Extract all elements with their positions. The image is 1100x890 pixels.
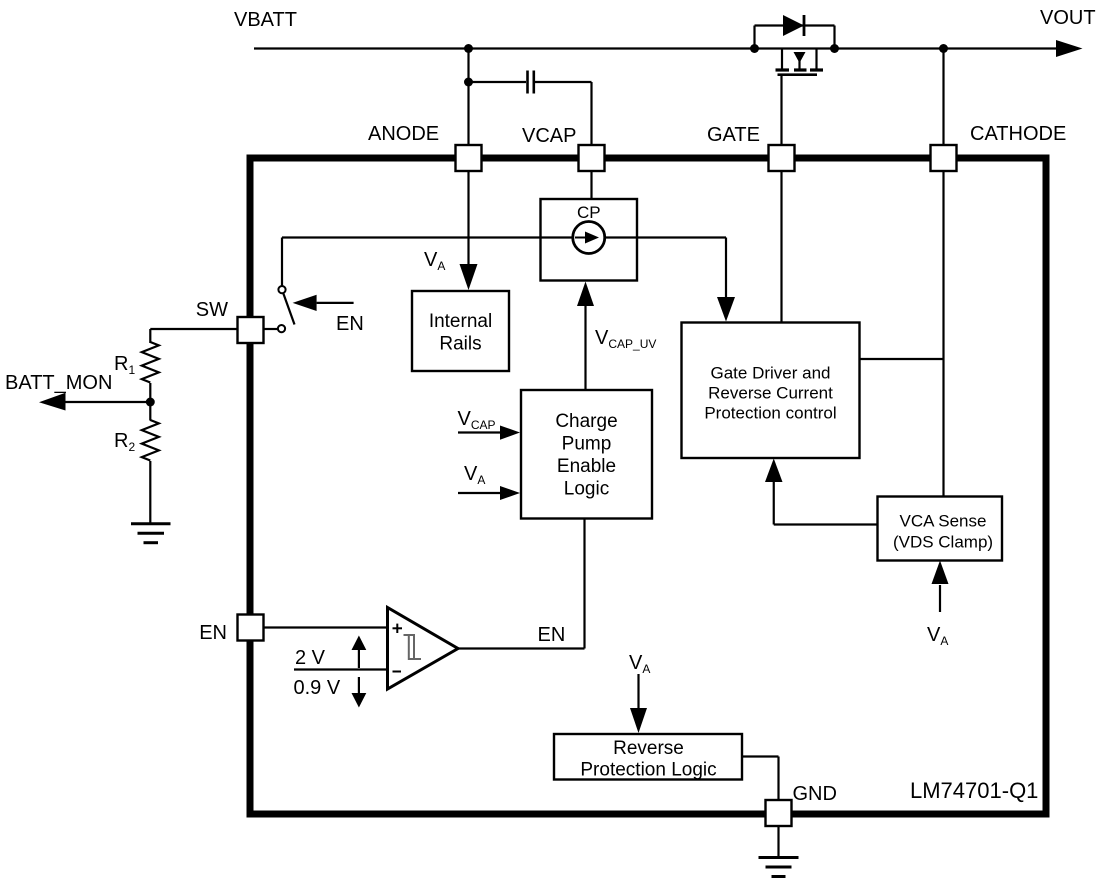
svg-text:CP: CP: [577, 203, 601, 222]
svg-text:Rails: Rails: [439, 334, 481, 355]
svg-text:Reverse Current: Reverse Current: [708, 384, 833, 403]
svg-text:ANODE: ANODE: [368, 123, 439, 145]
svg-text:2 V: 2 V: [295, 647, 326, 669]
svg-text:Logic: Logic: [564, 479, 609, 500]
svg-text:Protection control: Protection control: [704, 404, 836, 423]
svg-text:VBATT: VBATT: [234, 9, 297, 31]
svg-text:Reverse: Reverse: [613, 738, 684, 759]
svg-text:GATE: GATE: [707, 124, 760, 146]
svg-text:Enable: Enable: [557, 456, 616, 477]
svg-text:LM74701-Q1: LM74701-Q1: [910, 778, 1038, 803]
svg-text:VOUT: VOUT: [1040, 7, 1096, 29]
svg-text:(VDS Clamp): (VDS Clamp): [893, 533, 993, 552]
svg-text:EN: EN: [336, 313, 364, 335]
svg-text:Charge: Charge: [555, 411, 617, 432]
svg-text:Internal: Internal: [429, 311, 492, 332]
svg-text:Gate Driver and: Gate Driver and: [711, 364, 831, 383]
svg-text:VCAP: VCAP: [522, 125, 576, 147]
svg-text:GND: GND: [793, 783, 837, 805]
svg-text:Protection Logic: Protection Logic: [580, 760, 716, 781]
svg-text:VCA Sense: VCA Sense: [900, 512, 987, 531]
svg-text:EN: EN: [199, 622, 227, 644]
svg-text:CATHODE: CATHODE: [970, 123, 1066, 145]
svg-text:0.9 V: 0.9 V: [294, 677, 341, 699]
svg-text:Pump: Pump: [562, 434, 612, 455]
svg-text:BATT_MON: BATT_MON: [5, 372, 112, 394]
svg-text:EN: EN: [538, 624, 566, 646]
svg-text:SW: SW: [196, 299, 228, 321]
